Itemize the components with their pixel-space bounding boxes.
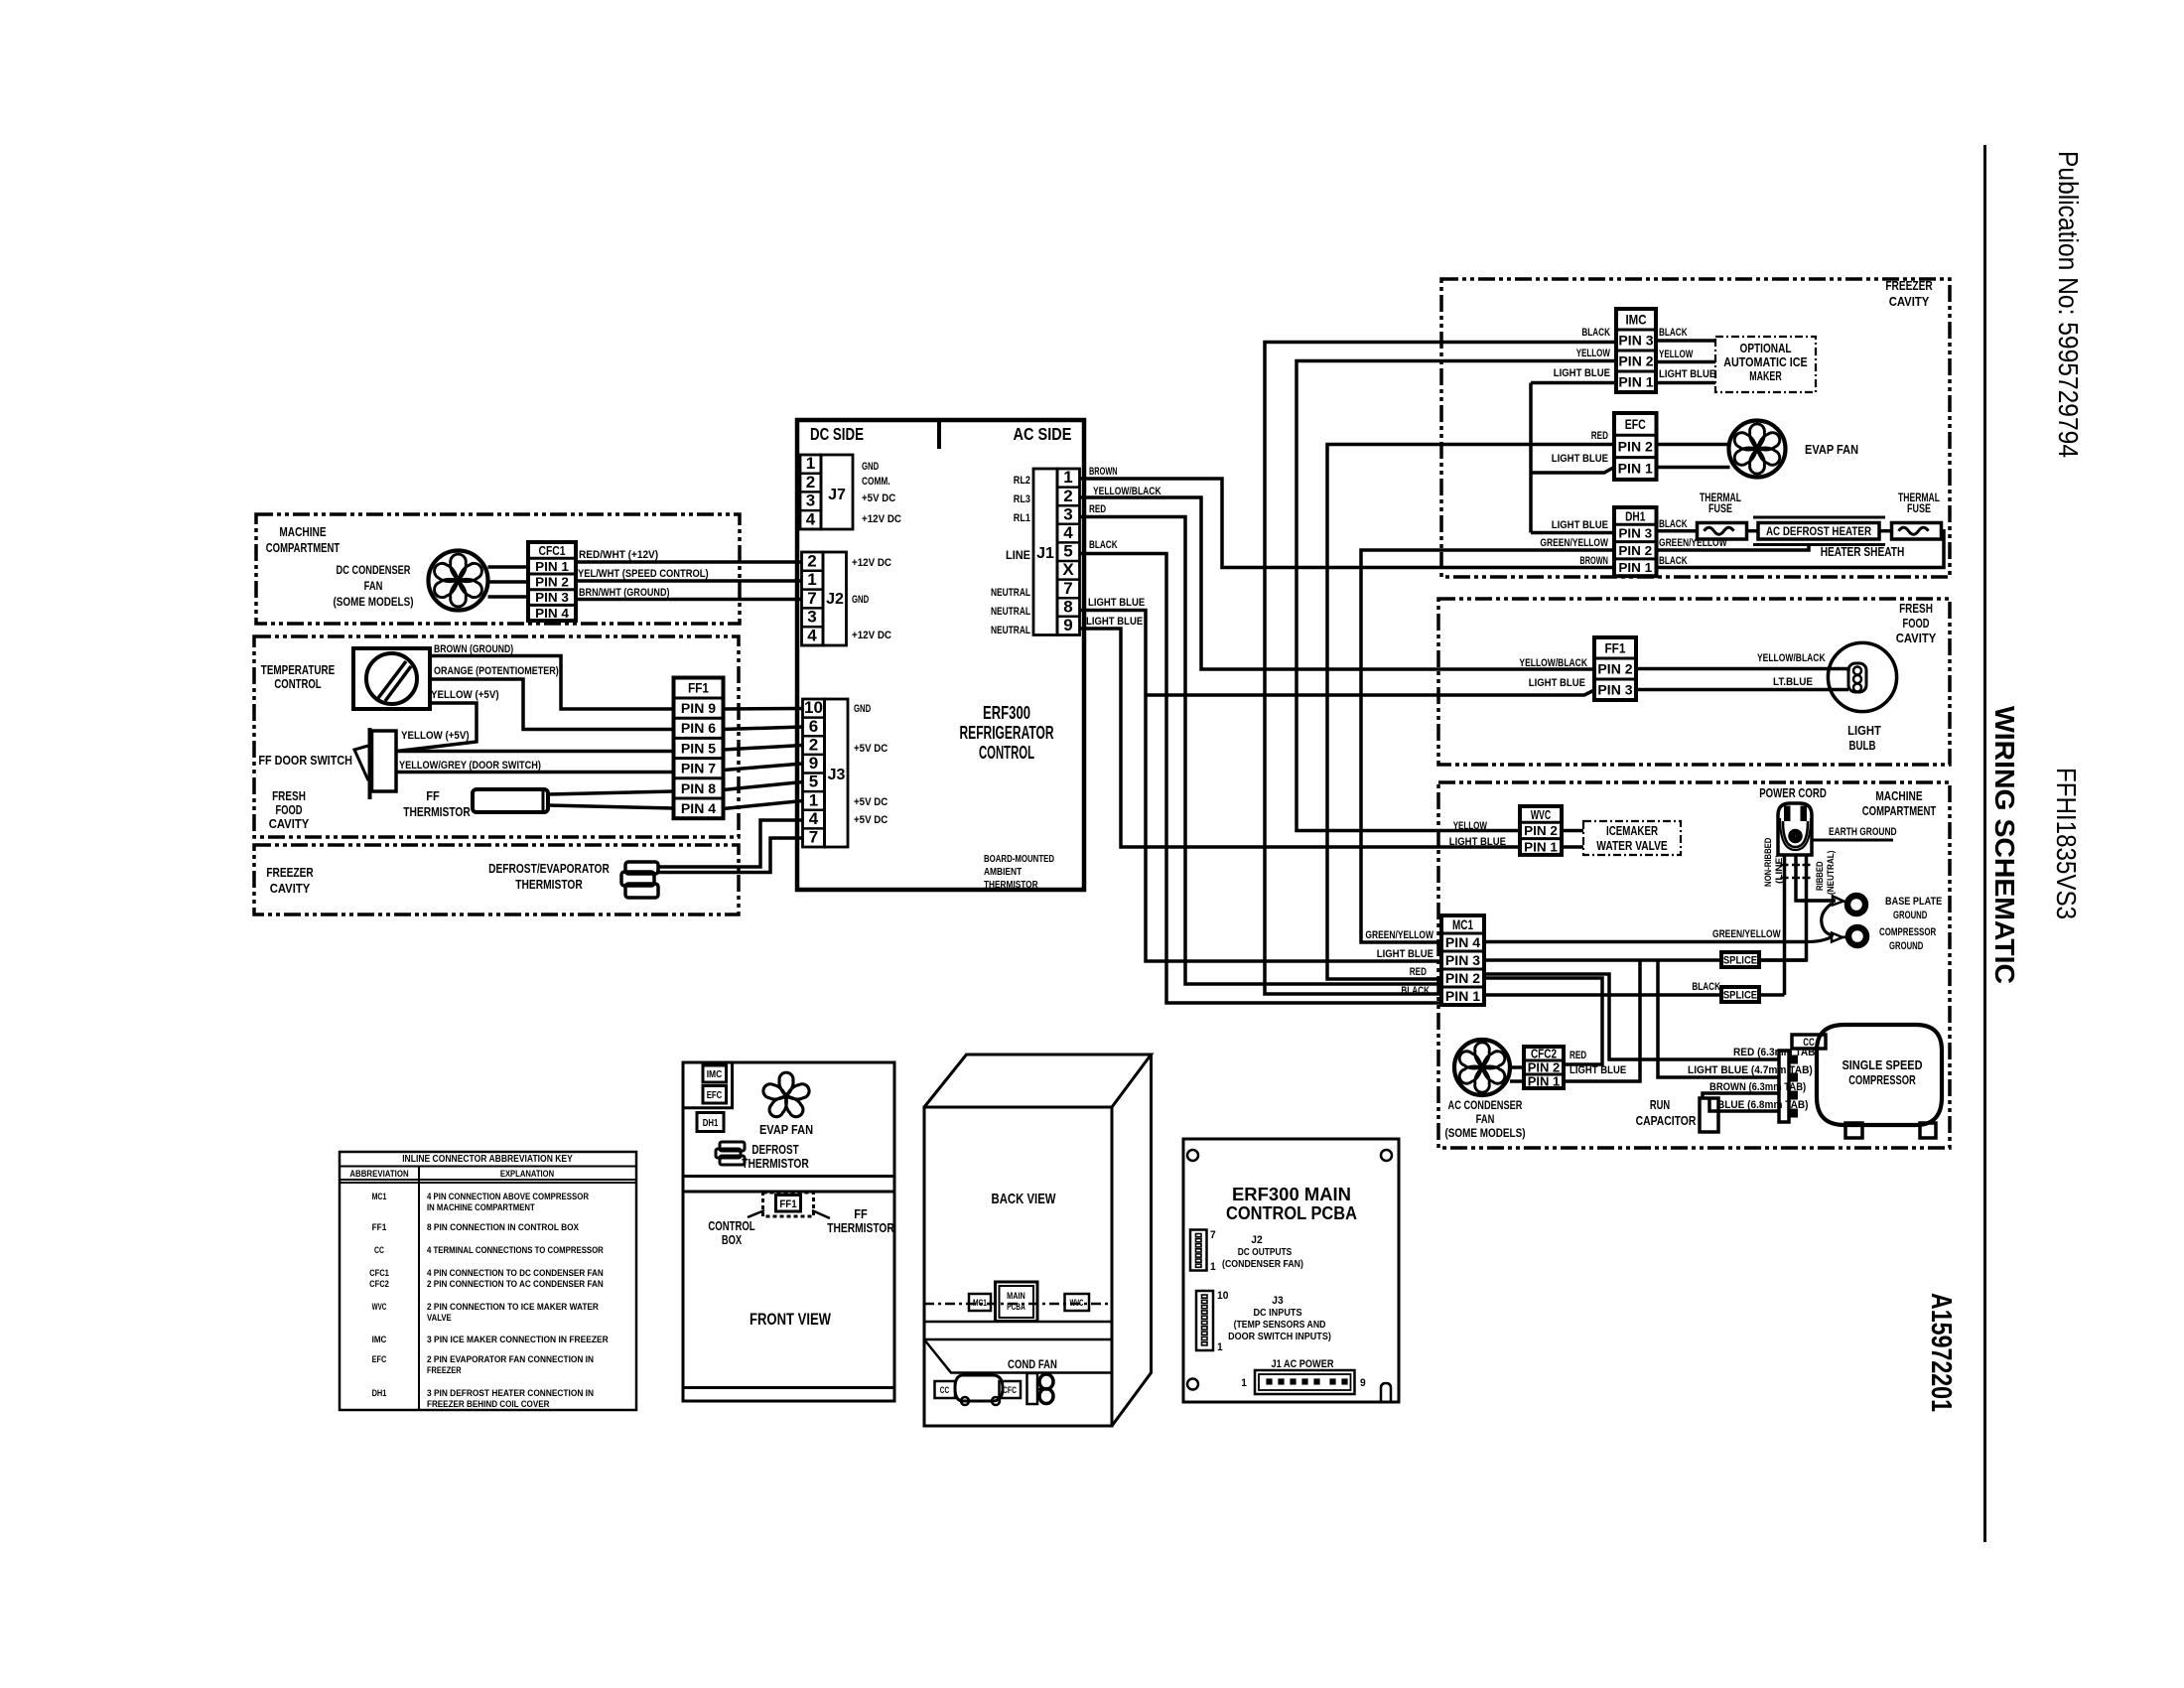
svg-text:7: 7 — [807, 589, 816, 608]
svg-text:4: 4 — [809, 809, 819, 828]
J3 connector icon (PCBA) — [1196, 1291, 1213, 1350]
svg-text:+5V DC: +5V DC — [862, 492, 895, 504]
connector CFC2 — [1524, 1047, 1564, 1088]
CFC icon (back view) — [1000, 1381, 1022, 1398]
svg-text:EARTH GROUND: EARTH GROUND — [1829, 826, 1897, 838]
wire FF1 pin8 to J3-5 — [724, 782, 803, 790]
svg-text:3: 3 — [807, 608, 816, 627]
svg-text:1: 1 — [1063, 468, 1072, 487]
svg-text:MACHINE: MACHINE — [1875, 788, 1923, 803]
svg-text:9: 9 — [1360, 1377, 1366, 1389]
svg-text:BLACK: BLACK — [1401, 985, 1430, 997]
svg-text:DC INPUTS: DC INPUTS — [1253, 1307, 1301, 1319]
svg-text:CAVITY: CAVITY — [270, 881, 311, 896]
wire J1-1 brown to DH1 pin1 — [1080, 479, 1615, 568]
svg-text:GROUND: GROUND — [1893, 910, 1927, 921]
svg-text:5: 5 — [809, 773, 818, 791]
svg-text:LIGHT BLUE: LIGHT BLUE — [1554, 367, 1610, 379]
svg-text:NEUTRAL: NEUTRAL — [991, 625, 1030, 636]
svg-text:PIN 3: PIN 3 — [1618, 333, 1654, 348]
svg-text:ORANGE (POTENTIOMETER): ORANGE (POTENTIOMETER) — [434, 665, 559, 677]
svg-text:FREEZER: FREEZER — [427, 1365, 462, 1376]
ground U link — [1822, 904, 1834, 935]
svg-text:LIGHT BLUE: LIGHT BLUE — [1377, 948, 1433, 960]
svg-text:9: 9 — [1063, 616, 1072, 634]
wire EFC pin2 to evap fan — [1657, 443, 1729, 447]
DC condenser fan — [429, 551, 488, 611]
power cord neutral wire (ribbed) — [1759, 855, 1807, 960]
svg-text:YELLOW/BLACK: YELLOW/BLACK — [1757, 652, 1826, 664]
svg-text:EFC: EFC — [1625, 417, 1646, 432]
wire FF thermistor to FF1 pin4 — [548, 805, 674, 808]
svg-text:J3: J3 — [1272, 1295, 1283, 1307]
connector IMC — [1616, 309, 1656, 392]
defrost/evaporator thermistor — [625, 862, 658, 874]
svg-text:COMM.: COMM. — [862, 476, 890, 488]
wire MC1 pin4 green/yellow to compressor ground — [1484, 940, 1807, 944]
defrost thermistor icon (front view) — [720, 1142, 745, 1151]
wire fan to CFC2 pin1 — [1510, 1079, 1524, 1083]
svg-text:CAVITY: CAVITY — [1896, 631, 1937, 645]
svg-text:3: 3 — [1063, 504, 1072, 523]
svg-text:THERMISTOR: THERMISTOR — [742, 1156, 809, 1171]
svg-text:OPTIONAL: OPTIONAL — [1740, 342, 1792, 355]
svg-text:YELLOW: YELLOW — [1576, 348, 1611, 359]
wire FF1 pin5 to J3-2 — [724, 746, 803, 751]
svg-text:DH1: DH1 — [703, 1118, 719, 1129]
svg-text:+12V DC: +12V DC — [852, 630, 891, 641]
svg-text:3 PIN DEFROST HEATER CONNECTIO: 3 PIN DEFROST HEATER CONNECTION IN — [427, 1388, 594, 1399]
svg-text:DC OUTPUTS: DC OUTPUTS — [1238, 1246, 1293, 1258]
svg-text:CC: CC — [940, 1385, 950, 1395]
wire IMC pin2 yellow to WVC pin2 — [1297, 361, 1616, 831]
svg-text:YELLOW/BLACK: YELLOW/BLACK — [1093, 486, 1161, 497]
svg-text:LT.BLUE: LT.BLUE — [1773, 676, 1813, 688]
wire J1-2 yellow/black to fresh food FF1 pin2 — [1080, 497, 1595, 669]
svg-text:FAN: FAN — [364, 579, 383, 593]
svg-text:FREEZER: FREEZER — [266, 865, 314, 880]
wire fan to CFC1 pin3 — [488, 595, 529, 599]
svg-text:2: 2 — [807, 551, 816, 570]
svg-text:2: 2 — [809, 735, 818, 754]
IMC connector icon (front view) — [703, 1065, 727, 1082]
svg-text:DOOR SWITCH INPUTS): DOOR SWITCH INPUTS) — [1228, 1331, 1331, 1342]
connector WVC — [1520, 806, 1562, 855]
svg-text:THERMISTOR: THERMISTOR — [827, 1220, 894, 1235]
svg-text:PIN 3: PIN 3 — [1618, 526, 1652, 541]
freezer cavity box — [1441, 279, 1950, 577]
svg-text:1: 1 — [1241, 1377, 1247, 1389]
svg-text:CONTROL: CONTROL — [979, 743, 1034, 763]
svg-text:+5V DC: +5V DC — [854, 796, 887, 808]
svg-text:BLACK: BLACK — [1089, 539, 1118, 551]
light blue branch to CFC2 pin1 — [1564, 960, 1640, 1081]
svg-text:BROWN (GROUND): BROWN (GROUND) — [434, 643, 513, 655]
svg-text:CONTROL: CONTROL — [274, 676, 321, 691]
svg-text:CONTROL: CONTROL — [708, 1218, 754, 1233]
svg-text:FRESH: FRESH — [272, 788, 306, 803]
svg-text:PIN 2: PIN 2 — [1528, 1061, 1561, 1075]
svg-text:YELLOW: YELLOW — [1659, 349, 1694, 360]
svg-text:BOX: BOX — [722, 1232, 743, 1247]
svg-text:CAPACITOR: CAPACITOR — [1636, 1113, 1697, 1128]
svg-text:(SOME MODELS): (SOME MODELS) — [333, 595, 413, 609]
wire IMC pin3 black from J-box vertical — [1265, 343, 1616, 995]
svg-text:4: 4 — [806, 509, 816, 528]
svg-text:X: X — [1062, 560, 1074, 579]
svg-text:LIGHT: LIGHT — [1847, 723, 1881, 738]
svg-text:7: 7 — [1210, 1229, 1216, 1241]
connector MC1 — [1441, 915, 1484, 1005]
base plate ground lug — [1796, 899, 1833, 902]
svg-text:PIN 1: PIN 1 — [535, 559, 569, 574]
svg-text:J7: J7 — [828, 487, 846, 503]
svg-text:MAIN: MAIN — [1007, 1291, 1025, 1301]
svg-text:ERF300 MAIN: ERF300 MAIN — [1232, 1185, 1351, 1204]
svg-text:RED: RED — [1410, 966, 1427, 978]
publication number text — [2053, 151, 2084, 458]
back view box (3D) — [924, 1107, 1112, 1426]
wire EFC pin2 red to MC1 pin2 — [1327, 445, 1614, 980]
non-ribbed line label — [1763, 837, 1785, 887]
svg-text:POWER CORD: POWER CORD — [1759, 785, 1827, 800]
svg-text:+12V DC: +12V DC — [862, 513, 901, 525]
freezer cavity box (left) — [254, 845, 739, 914]
svg-text:EVAP FAN: EVAP FAN — [1805, 442, 1858, 457]
svg-text:6: 6 — [809, 717, 818, 736]
connector FF1 (fresh food) — [1594, 637, 1636, 700]
svg-text:RED: RED — [1570, 1050, 1586, 1061]
svg-text:THERMISTOR: THERMISTOR — [984, 879, 1038, 891]
svg-text:PIN 6: PIN 6 — [681, 721, 717, 736]
svg-text:5: 5 — [1063, 542, 1072, 561]
svg-text:RUN: RUN — [1650, 1097, 1670, 1112]
connector J3 — [803, 699, 825, 847]
page rule line (right margin) — [1983, 145, 1986, 1542]
machine compartment box (right) — [1438, 782, 1950, 1148]
svg-text:+5V DC: +5V DC — [854, 814, 887, 826]
wire J1-8 branch to fresh food FF1 pin3 — [1146, 690, 1594, 695]
svg-text:PIN 1: PIN 1 — [1524, 839, 1558, 854]
svg-text:PIN 2: PIN 2 — [1524, 823, 1558, 838]
svg-text:BLACK: BLACK — [1659, 555, 1688, 567]
svg-text:PIN 2: PIN 2 — [1597, 661, 1632, 676]
wire IMC pin1 to ice maker — [1656, 381, 1715, 385]
wire EFC pin1 light blue from bus — [1531, 468, 1614, 474]
run capacitor icon (back view) — [955, 1375, 1003, 1401]
svg-text:J2: J2 — [826, 591, 844, 608]
wire fan to CFC1 pin2 — [488, 580, 529, 584]
svg-text:LIGHT BLUE: LIGHT BLUE — [1086, 616, 1143, 628]
wire FF1 pin3 to light bulb (lt.blue) — [1636, 688, 1848, 692]
svg-text:BLACK: BLACK — [1581, 327, 1610, 339]
svg-text:COND FAN: COND FAN — [1008, 1357, 1057, 1371]
wire fuse to AC defrost heater — [1747, 529, 1759, 533]
svg-text:WVC: WVC — [1070, 1298, 1084, 1308]
svg-text:(NEUTRAL): (NEUTRAL) — [1826, 851, 1837, 896]
connector EFC — [1614, 413, 1657, 480]
svg-text:(LINE): (LINE) — [1774, 854, 1785, 884]
wire J1-8 light blue to MC1 pin3 — [1080, 611, 1442, 962]
svg-text:REFRIGERATOR: REFRIGERATOR — [960, 723, 1054, 743]
wire knob yellow +5V to door switch node — [397, 703, 477, 752]
compressor ground lug — [1807, 937, 1832, 942]
svg-text:PIN 4: PIN 4 — [535, 606, 570, 621]
svg-text:PIN 2: PIN 2 — [1618, 439, 1653, 454]
wire defrost thermistor to J3-7 — [656, 838, 803, 873]
svg-text:2: 2 — [1063, 487, 1072, 505]
svg-text:RL3: RL3 — [1014, 493, 1030, 505]
svg-text:9: 9 — [809, 754, 818, 773]
svg-text:GROUND: GROUND — [1889, 940, 1923, 952]
cord tick marks — [1781, 864, 1789, 867]
svg-text:MC1: MC1 — [973, 1298, 987, 1308]
svg-text:FREEZER: FREEZER — [1885, 278, 1933, 293]
icemaker water valve box — [1583, 821, 1681, 855]
svg-text:IMC: IMC — [707, 1069, 723, 1080]
wire FF1 pin6 to J3-6 — [724, 727, 803, 730]
svg-text:DH1: DH1 — [1625, 508, 1645, 523]
svg-text:CFC2: CFC2 — [369, 1279, 389, 1290]
svg-text:THERMISTOR: THERMISTOR — [515, 877, 583, 892]
svg-text:ICEMAKER: ICEMAKER — [1606, 824, 1658, 838]
svg-text:PIN 3: PIN 3 — [1597, 682, 1633, 697]
svg-text:EFC: EFC — [707, 1090, 723, 1101]
svg-text:DEFROST/EVAPORATOR: DEFROST/EVAPORATOR — [488, 861, 610, 876]
svg-text:+12V DC: +12V DC — [852, 557, 891, 569]
freezer light blue bus vertical — [1529, 383, 1533, 533]
svg-text:LIGHT BLUE: LIGHT BLUE — [1552, 453, 1608, 465]
svg-text:FREEZER BEHIND COIL COVER: FREEZER BEHIND COIL COVER — [427, 1399, 550, 1410]
svg-text:GREEN/YELLOW: GREEN/YELLOW — [1712, 928, 1781, 940]
wire right fuse return to DH1 pin1 black — [1657, 531, 1945, 568]
svg-text:PIN 1: PIN 1 — [1528, 1075, 1561, 1089]
svg-text:DH1: DH1 — [372, 1388, 387, 1399]
svg-text:COMPRESSOR: COMPRESSOR — [1879, 926, 1936, 938]
CC icon (back view) — [935, 1381, 956, 1398]
svg-text:BLACK: BLACK — [1659, 327, 1688, 339]
svg-text:(TEMP SENSORS AND: (TEMP SENSORS AND — [1234, 1319, 1326, 1331]
svg-text:GREEN/YELLOW: GREEN/YELLOW — [1365, 929, 1433, 941]
svg-text:Publication No: 5995729794: Publication No: 5995729794 — [2053, 151, 2084, 458]
evap fan icon (front view) — [779, 1072, 793, 1096]
svg-text:WATER VALVE: WATER VALVE — [1596, 839, 1668, 853]
svg-text:RL1: RL1 — [1014, 512, 1030, 524]
svg-text:FF: FF — [854, 1206, 868, 1221]
svg-text:FRONT VIEW: FRONT VIEW — [750, 1310, 832, 1329]
svg-text:CAVITY: CAVITY — [1889, 294, 1930, 309]
WVC icon (back view) — [1065, 1294, 1090, 1311]
DH1 connector icon (front view) — [697, 1113, 724, 1132]
svg-text:LIGHT BLUE: LIGHT BLUE — [1088, 597, 1145, 609]
svg-text:NEUTRAL: NEUTRAL — [991, 587, 1030, 599]
MC1 icon (back view) — [969, 1294, 991, 1311]
FF door switch — [368, 728, 372, 799]
wire J1-3 red to MC1 pin2 — [1080, 517, 1442, 985]
wire knob orange potentiometer to FF1 pin6 — [430, 679, 674, 730]
svg-text:3: 3 — [806, 492, 815, 510]
svg-text:YELLOW/GREY (DOOR SWITCH): YELLOW/GREY (DOOR SWITCH) — [399, 760, 541, 772]
FF thermistor — [473, 789, 548, 812]
wire MC1 pin1 black to splice 2 — [1484, 993, 1721, 997]
connector J2 — [802, 552, 824, 645]
svg-text:PIN 1: PIN 1 — [1618, 374, 1654, 389]
connector J1 — [1033, 469, 1057, 635]
svg-text:FRESH: FRESH — [1899, 601, 1933, 616]
svg-text:MC1: MC1 — [372, 1192, 387, 1202]
svg-text:LIGHT BLUE: LIGHT BLUE — [1552, 519, 1608, 531]
svg-text:MAKER: MAKER — [1749, 369, 1782, 383]
wire IMC pin2 to ice maker — [1656, 360, 1715, 364]
power cord ground wire — [1796, 855, 1836, 901]
svg-text:YELLOW (+5V): YELLOW (+5V) — [431, 689, 499, 701]
wire CFC1 pin3 to J2-7 (BRN/WHT ground) — [576, 598, 802, 602]
svg-text:AC SIDE: AC SIDE — [1014, 424, 1072, 444]
svg-text:IN MACHINE COMPARTMENT: IN MACHINE COMPARTMENT — [427, 1202, 535, 1213]
wire EFC pin1 to evap fan — [1657, 466, 1730, 470]
svg-text:1: 1 — [1210, 1261, 1216, 1273]
svg-text:3 PIN ICE MAKER CONNECTION IN: 3 PIN ICE MAKER CONNECTION IN FREEZER — [427, 1335, 609, 1345]
svg-text:RED: RED — [1591, 430, 1608, 442]
svg-text:J1 AC POWER: J1 AC POWER — [1272, 1358, 1334, 1370]
svg-text:BLACK: BLACK — [1692, 981, 1720, 993]
wire FF1 pin2 to light bulb (yellow/black) — [1636, 669, 1848, 672]
svg-text:+5V DC: +5V DC — [854, 743, 887, 755]
svg-text:PCBA: PCBA — [1007, 1302, 1025, 1312]
svg-text:10: 10 — [1217, 1290, 1228, 1302]
svg-text:DC CONDENSER: DC CONDENSER — [337, 563, 411, 577]
svg-text:2: 2 — [806, 473, 815, 492]
svg-text:PIN 2: PIN 2 — [1618, 543, 1652, 558]
svg-text:BROWN: BROWN — [1089, 466, 1118, 478]
svg-text:BACK VIEW: BACK VIEW — [992, 1191, 1057, 1207]
connector CFC1 — [528, 542, 576, 621]
svg-text:8 PIN CONNECTION IN CONTROL BO: 8 PIN CONNECTION IN CONTROL BOX — [427, 1222, 580, 1233]
wire heater to right fuse — [1879, 529, 1892, 533]
svg-text:PIN 2: PIN 2 — [1618, 353, 1653, 368]
EFC connector icon (front view) — [703, 1086, 727, 1104]
svg-text:CFC1: CFC1 — [369, 1268, 389, 1279]
single speed compressor — [1817, 1025, 1942, 1125]
svg-text:LIGHT BLUE: LIGHT BLUE — [1659, 368, 1715, 380]
svg-text:WIRING SCHEMATIC: WIRING SCHEMATIC — [1989, 706, 2020, 984]
svg-text:HEATER SHEATH: HEATER SHEATH — [1821, 545, 1905, 559]
svg-text:BLACK: BLACK — [1659, 518, 1688, 530]
svg-text:7: 7 — [809, 828, 818, 847]
svg-text:PIN 3: PIN 3 — [535, 590, 569, 605]
svg-text:COMPARTMENT: COMPARTMENT — [266, 540, 340, 555]
wire DH1 pin3 light blue from bus — [1531, 531, 1614, 535]
svg-text:RED: RED — [1089, 503, 1106, 515]
wire WVC pin2 to icemaker water valve — [1562, 829, 1583, 833]
svg-text:RIBBED: RIBBED — [1815, 861, 1826, 891]
wire defrost thermistor to J3-4 — [658, 820, 803, 867]
svg-text:MC1: MC1 — [1452, 917, 1473, 932]
svg-text:EXPLANATION: EXPLANATION — [500, 1169, 554, 1180]
svg-text:2 PIN CONNECTION TO ICE MAKER: 2 PIN CONNECTION TO ICE MAKER WATER — [427, 1302, 599, 1313]
wire FF thermistor to FF1 pin8 — [548, 791, 674, 794]
light bulb — [1828, 642, 1896, 711]
optional automatic ice maker box — [1715, 337, 1816, 392]
svg-text:WVC: WVC — [372, 1302, 387, 1313]
wire FF1 pin7 to J3-9 — [724, 764, 803, 771]
svg-text:J2: J2 — [1251, 1234, 1262, 1246]
wire CFC1 pin1 to J2-2 (RED/WHT +12V) — [576, 560, 802, 564]
svg-text:FFHI1835VS3: FFHI1835VS3 — [2051, 768, 2082, 919]
connector J7 — [800, 455, 821, 529]
svg-text:CFC1: CFC1 — [539, 543, 566, 558]
svg-text:AC DEFROST HEATER: AC DEFROST HEATER — [1766, 524, 1871, 538]
svg-text:TEMPERATURE: TEMPERATURE — [261, 662, 336, 677]
wire J1-9 light blue to WVC pin1 — [1080, 629, 1521, 847]
compressor feet — [1845, 1123, 1862, 1138]
model number FFHI1835VS3 — [2051, 768, 2082, 919]
front view box — [683, 1062, 894, 1401]
splice (light blue) — [1721, 952, 1759, 967]
compressor terminal labels CC — [1792, 1035, 1826, 1049]
svg-text:ABBREVIATION: ABBREVIATION — [349, 1169, 408, 1180]
svg-text:2 PIN CONNECTION TO AC CONDENS: 2 PIN CONNECTION TO AC CONDENSER FAN — [427, 1279, 604, 1290]
svg-text:BOARD-MOUNTED: BOARD-MOUNTED — [984, 853, 1054, 865]
svg-text:4 TERMINAL CONNECTIONS TO COMP: 4 TERMINAL CONNECTIONS TO COMPRESSOR — [427, 1245, 604, 1256]
inline connector abbreviation key table — [340, 1152, 636, 1410]
wire CFC1 pin2 to J2-1 (YEL/WHT speed control) — [576, 579, 802, 583]
svg-text:FF1: FF1 — [688, 681, 710, 696]
svg-text:FUSE: FUSE — [1708, 503, 1732, 515]
svg-text:RED/WHT (+12V): RED/WHT (+12V) — [579, 549, 658, 561]
svg-text:FF1: FF1 — [1604, 640, 1626, 655]
svg-text:4: 4 — [1063, 523, 1073, 542]
svg-text:PIN 2: PIN 2 — [535, 575, 569, 590]
svg-text:CAVITY: CAVITY — [269, 816, 310, 831]
svg-text:A15972201: A15972201 — [1925, 1293, 1957, 1412]
svg-text:THERMISTOR: THERMISTOR — [403, 804, 471, 819]
svg-text:PIN 4: PIN 4 — [681, 801, 717, 816]
J2 connector icon (PCBA) — [1190, 1230, 1207, 1271]
svg-text:AUTOMATIC ICE: AUTOMATIC ICE — [1723, 355, 1808, 369]
svg-text:BROWN: BROWN — [1579, 555, 1608, 567]
svg-text:YELLOW: YELLOW — [1453, 820, 1488, 832]
svg-text:GREEN/YELLOW: GREEN/YELLOW — [1659, 537, 1727, 549]
ribbed neutral label — [1815, 851, 1837, 896]
ERF300 refrigerator control board — [797, 420, 1084, 890]
svg-text:EFC: EFC — [372, 1354, 387, 1365]
connector DH1 — [1614, 507, 1657, 576]
svg-text:CONTROL PCBA: CONTROL PCBA — [1226, 1203, 1357, 1223]
svg-text:YELLOW/BLACK: YELLOW/BLACK — [1519, 657, 1587, 669]
svg-text:1: 1 — [1217, 1341, 1223, 1353]
earth ground wire — [1812, 839, 1893, 842]
svg-text:WVC: WVC — [1531, 807, 1552, 822]
wire door switch to FF1 pin5 (yellow +5V) — [396, 750, 674, 754]
svg-text:PIN 3: PIN 3 — [1445, 953, 1481, 968]
wire MC1 pin2 red to compressor red tab — [1484, 974, 1779, 1059]
temperature control knob — [353, 648, 430, 709]
svg-text:10: 10 — [804, 698, 823, 717]
wire DH1 pin2 to heater sheath — [1657, 545, 1810, 551]
svg-text:LINE: LINE — [1006, 548, 1030, 562]
svg-text:GND: GND — [862, 461, 879, 473]
main PCBA icon (back view) — [996, 1282, 1038, 1322]
svg-text:FUSE: FUSE — [1907, 503, 1931, 515]
svg-text:1: 1 — [806, 454, 815, 473]
wire MC1 pin2 red to CFC2 pin2 — [1484, 978, 1602, 1064]
svg-text:FF DOOR SWITCH: FF DOOR SWITCH — [258, 753, 352, 768]
WIRING SCHEMATIC title — [1989, 706, 2020, 984]
heater sheath lines — [1753, 516, 1885, 519]
svg-text:PIN 9: PIN 9 — [681, 701, 716, 716]
wire run capacitor to compressor brown tab — [1703, 1093, 1779, 1098]
